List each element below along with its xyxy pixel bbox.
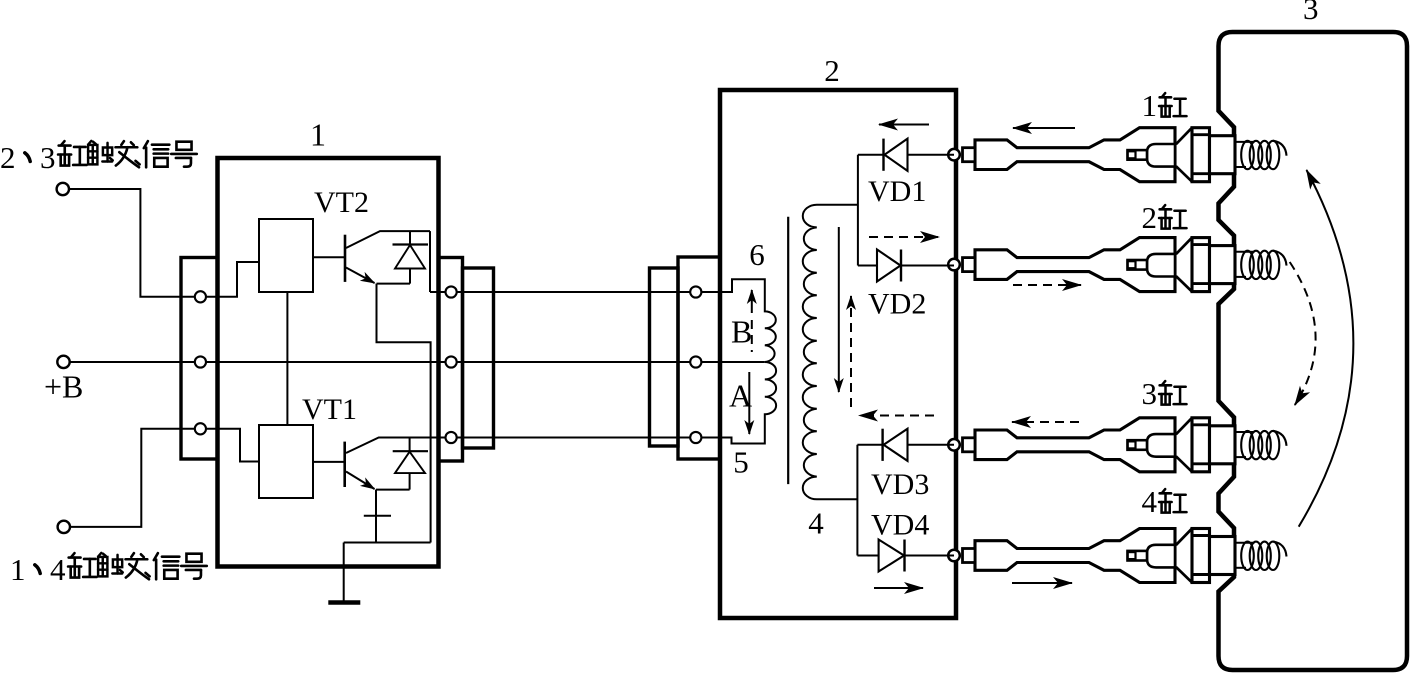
svg-text:VD3: VD3	[871, 468, 929, 501]
svg-text:+B: +B	[44, 369, 83, 405]
svg-text:4: 4	[808, 506, 824, 541]
svg-text:1: 1	[10, 552, 26, 587]
svg-text:B: B	[731, 314, 752, 350]
svg-text:3: 3	[1303, 0, 1319, 26]
svg-text:VD1: VD1	[868, 175, 926, 208]
svg-text:2: 2	[824, 53, 840, 88]
svg-text:3: 3	[40, 140, 56, 175]
svg-text:3: 3	[1142, 376, 1158, 411]
svg-text:VT1: VT1	[302, 393, 357, 426]
svg-text:1: 1	[1142, 88, 1158, 123]
svg-text:2: 2	[1142, 200, 1158, 235]
svg-text:1: 1	[310, 117, 326, 153]
svg-text:VT2: VT2	[314, 186, 369, 219]
svg-text:5: 5	[733, 445, 749, 480]
svg-text:4: 4	[1142, 484, 1158, 519]
svg-text:4: 4	[50, 552, 66, 587]
svg-text:6: 6	[749, 237, 765, 272]
svg-text:VD4: VD4	[871, 509, 929, 542]
svg-text:VD2: VD2	[868, 288, 926, 321]
svg-text:2: 2	[0, 140, 16, 175]
